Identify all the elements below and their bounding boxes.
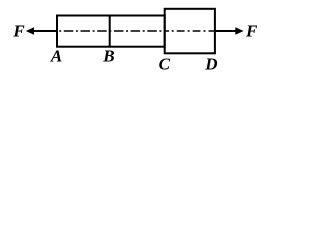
bar section A-C (small rectangle) [57, 16, 165, 47]
svg-text:B: B [102, 47, 114, 66]
force arrow right (head) [235, 27, 243, 35]
centerline (dash-dot axis) [57, 30, 169, 32]
force arrow left (head) [26, 27, 34, 35]
force arrow right (shaft) [215, 30, 237, 32]
svg-text:A: A [50, 47, 62, 66]
force arrow left (shaft) [33, 30, 58, 32]
svg-text:F: F [245, 22, 258, 41]
bar section C-D (large rectangle) [165, 9, 215, 54]
svg-text:C: C [159, 55, 171, 74]
svg-text:F: F [12, 22, 25, 41]
centerline (dash-dot axis, section C-D) [169, 30, 215, 32]
section divider at B [109, 16, 111, 47]
svg-text:D: D [204, 55, 217, 74]
